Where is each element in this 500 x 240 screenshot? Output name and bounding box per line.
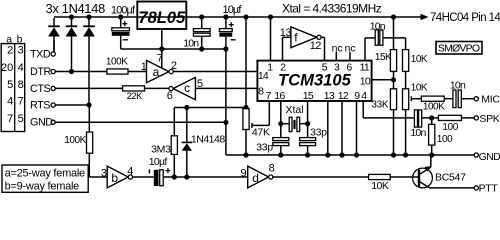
svg-text:MIC: MIC (481, 94, 500, 106)
svg-text:10n: 10n (410, 127, 426, 139)
svg-text:5: 5 (18, 113, 24, 125)
svg-text:6: 6 (346, 61, 352, 73)
svg-text:4: 4 (361, 90, 367, 102)
svg-text:7: 7 (266, 90, 272, 102)
svg-text:8: 8 (269, 163, 275, 175)
svg-text:22K: 22K (127, 91, 144, 102)
svg-text:8: 8 (258, 86, 264, 98)
svg-text:100K: 100K (106, 57, 128, 68)
svg-text:6: 6 (167, 90, 173, 102)
svg-text:4: 4 (7, 96, 13, 108)
svg-text:10: 10 (360, 75, 371, 87)
svg-text:d: d (252, 171, 259, 185)
svg-text:13: 13 (324, 90, 335, 102)
svg-text:PTT: PTT (479, 182, 499, 193)
svg-text:100K: 100K (423, 101, 445, 112)
svg-text:12: 12 (338, 90, 349, 102)
svg-text:nc: nc (345, 43, 356, 55)
svg-text:2: 2 (171, 60, 177, 72)
svg-text:7: 7 (157, 52, 163, 64)
svg-text:b=9-way female: b=9-way female (5, 181, 80, 193)
svg-text:10µf: 10µf (223, 4, 243, 16)
svg-text:2: 2 (7, 45, 13, 57)
svg-text:15: 15 (303, 90, 314, 102)
svg-text:SPK: SPK (479, 113, 499, 125)
svg-text:SMØVPO: SMØVPO (438, 42, 480, 54)
svg-text:14: 14 (258, 70, 269, 82)
svg-text:47K: 47K (252, 127, 270, 139)
svg-text:RTS: RTS (30, 99, 50, 111)
svg-text:78L05: 78L05 (138, 9, 186, 27)
svg-text:b: b (17, 33, 23, 45)
svg-text:GND: GND (30, 117, 53, 129)
svg-text:BC547: BC547 (435, 171, 466, 183)
svg-text:3: 3 (334, 61, 340, 73)
svg-text:1: 1 (267, 61, 273, 73)
svg-text:a: a (153, 65, 160, 79)
svg-text:CTS: CTS (30, 83, 50, 95)
svg-text:3: 3 (101, 167, 107, 179)
svg-text:7: 7 (7, 113, 13, 125)
svg-text:Xtal: Xtal (286, 104, 304, 116)
svg-text:10K: 10K (411, 54, 428, 65)
svg-text:Xtal = 4.433619MHz: Xtal = 4.433619MHz (282, 1, 382, 15)
svg-text:10K: 10K (371, 180, 389, 192)
svg-text:GND: GND (479, 151, 500, 163)
svg-text:2: 2 (280, 61, 286, 73)
svg-text:33K: 33K (371, 100, 389, 111)
svg-text:DTR: DTR (30, 66, 51, 78)
svg-text:100K: 100K (64, 135, 86, 146)
svg-text:9: 9 (241, 167, 247, 179)
svg-text:16: 16 (274, 90, 285, 102)
svg-text:7: 7 (18, 96, 24, 108)
svg-text:20: 20 (1, 62, 13, 74)
svg-text:9: 9 (354, 90, 360, 102)
svg-text:TXD: TXD (30, 48, 51, 60)
svg-text:10K: 10K (411, 82, 428, 93)
svg-text:3: 3 (18, 45, 24, 57)
svg-text:100µf: 100µf (111, 4, 136, 16)
svg-text:4: 4 (127, 165, 133, 177)
svg-text:74HC04 Pin 14: 74HC04 Pin 14 (430, 12, 500, 24)
svg-text:5: 5 (197, 78, 203, 90)
svg-text:33p: 33p (310, 126, 327, 138)
svg-text:8: 8 (18, 79, 24, 91)
svg-text:100: 100 (437, 134, 453, 145)
svg-text:10µf: 10µf (149, 156, 168, 168)
svg-text:b: b (111, 171, 118, 185)
svg-text:1N4148: 1N4148 (191, 134, 225, 146)
svg-text:10n: 10n (450, 80, 466, 92)
svg-text:3x 1N4148: 3x 1N4148 (46, 1, 105, 16)
svg-text:15K: 15K (375, 52, 392, 63)
svg-text:3M3: 3M3 (151, 144, 171, 156)
svg-text:12: 12 (310, 40, 322, 52)
svg-text:TCM3105: TCM3105 (278, 71, 352, 90)
svg-text:5: 5 (7, 79, 13, 91)
svg-text:5: 5 (322, 61, 328, 73)
svg-text:a: a (6, 33, 12, 45)
svg-text:4: 4 (18, 62, 24, 74)
svg-text:10n: 10n (183, 37, 199, 49)
svg-text:a=25-way female: a=25-way female (5, 168, 85, 180)
svg-text:10n: 10n (370, 20, 386, 32)
svg-text:nc: nc (332, 43, 343, 55)
svg-text:33p: 33p (256, 142, 273, 154)
svg-text:11: 11 (360, 61, 370, 73)
svg-text:13: 13 (280, 27, 292, 39)
svg-text:100: 100 (442, 122, 458, 133)
svg-text:c: c (184, 81, 190, 95)
svg-text:1: 1 (141, 61, 147, 73)
